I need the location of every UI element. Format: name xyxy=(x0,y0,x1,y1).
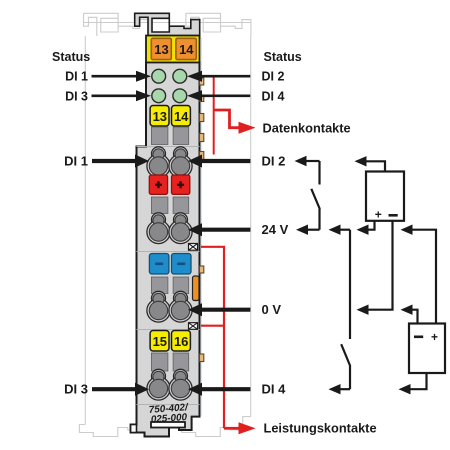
status arrow DI3 xyxy=(92,95,138,98)
LED DI2 xyxy=(173,69,187,83)
orange release lever xyxy=(193,276,200,301)
svg-text:DI 3: DI 3 xyxy=(64,382,88,397)
svg-text:Status: Status xyxy=(264,50,302,64)
arrow from B2 bottom xyxy=(410,373,427,389)
cage clamp 0V-b xyxy=(169,291,192,322)
cage clamp DI2 xyxy=(169,147,192,178)
orange label 14 xyxy=(176,38,196,59)
status arrow DI4 xyxy=(201,95,250,98)
section divider lines xyxy=(137,147,200,405)
DIN rail line xyxy=(84,22,251,24)
bottom release hook xyxy=(131,425,137,433)
wire DI2 right xyxy=(201,159,250,163)
red marker + left xyxy=(149,175,167,194)
blue marker - left xyxy=(149,254,169,275)
wire S2 top lead xyxy=(349,230,351,339)
yellow terminal id block xyxy=(146,36,200,63)
data contact tabs xyxy=(200,78,204,362)
wire DI1 left xyxy=(92,159,136,163)
red data contact line xyxy=(213,76,215,155)
arrow to switch S2 xyxy=(340,229,350,231)
yellow label 14 xyxy=(172,106,191,127)
LED DI1 xyxy=(152,69,166,83)
svg-text:+: + xyxy=(431,330,438,344)
svg-text:14: 14 xyxy=(179,42,194,57)
red Datenkontakte arrow xyxy=(214,110,240,128)
red power jumper line xyxy=(201,247,224,428)
cage clamp 24V-b xyxy=(169,213,192,244)
svg-text:Datenkontakte: Datenkontakte xyxy=(263,121,351,136)
battery B1 top lead xyxy=(362,161,385,171)
yellow label 13 xyxy=(150,106,169,127)
cage clamp 0V-a xyxy=(147,291,170,322)
arrow from S1 xyxy=(308,229,320,231)
svg-text:13: 13 xyxy=(154,42,168,57)
module body xyxy=(131,62,200,437)
part number label xyxy=(148,402,190,426)
LED DI4 xyxy=(173,89,187,103)
orange label 13 xyxy=(151,38,171,59)
status arrow DI2 xyxy=(201,75,250,78)
arrow from B1 plus xyxy=(368,221,375,230)
side shadow line xyxy=(201,38,202,416)
arrow to B2 minus xyxy=(412,310,418,324)
svg-text:24 V: 24 V xyxy=(262,222,289,237)
svg-text:DI 3: DI 3 xyxy=(65,89,88,103)
cage clamp 24V-a xyxy=(147,213,170,244)
ghost neighbour modules xyxy=(79,13,250,436)
cage clamp DI4 xyxy=(169,369,192,400)
arrow from S2 xyxy=(340,388,350,390)
wire S2 bottom lead xyxy=(349,366,351,390)
svg-text:14: 14 xyxy=(174,109,189,124)
svg-text:15: 15 xyxy=(153,334,167,349)
arrow to switch S1 xyxy=(306,160,320,162)
red Leistungskontakte arrow xyxy=(224,427,240,430)
arrow to B2 plus xyxy=(412,230,436,324)
svg-text:DI 2: DI 2 xyxy=(262,154,286,169)
terminal posts row3 xyxy=(151,277,168,294)
wire 0V right xyxy=(201,308,250,312)
power jumper contact 2 xyxy=(189,323,198,330)
switch S2 blade xyxy=(341,344,350,366)
wire S1 bottom lead xyxy=(318,209,320,230)
bottom foot notch xyxy=(151,422,185,428)
terminal posts row4 xyxy=(151,353,168,371)
module top clamp (hat) xyxy=(135,13,200,38)
terminal posts row1 xyxy=(151,127,168,145)
wire DI3 left xyxy=(92,387,136,391)
wire 24V right xyxy=(201,228,250,232)
red marker + right xyxy=(172,175,190,194)
cage clamp DI1 xyxy=(147,147,170,178)
svg-text:Leistungskontakte: Leistungskontakte xyxy=(264,421,377,436)
LED DI3 xyxy=(152,89,166,103)
cage clamp DI3 xyxy=(147,369,170,400)
svg-text:DI 4: DI 4 xyxy=(262,382,287,397)
svg-text:DI 1: DI 1 xyxy=(65,70,88,84)
battery B2 xyxy=(409,324,445,374)
battery B1 xyxy=(366,172,404,221)
power jumper contact 1 xyxy=(189,244,198,251)
wire S1 top lead xyxy=(318,161,320,185)
svg-text:16: 16 xyxy=(174,334,188,349)
wire DI4 right xyxy=(201,387,250,391)
svg-text:DI 4: DI 4 xyxy=(262,89,285,103)
svg-text:0 V: 0 V xyxy=(262,302,282,317)
yellow label 15 xyxy=(150,331,169,352)
status arrow DI1 xyxy=(92,75,138,78)
terminal posts row2 xyxy=(151,197,168,214)
svg-text:Status: Status xyxy=(52,50,90,64)
arrow from B1 minus xyxy=(368,221,393,310)
yellow label 16 xyxy=(172,331,191,352)
svg-text:13: 13 xyxy=(153,109,167,124)
svg-text:DI 1: DI 1 xyxy=(64,154,88,169)
svg-text:DI 2: DI 2 xyxy=(262,70,285,84)
blue marker - right xyxy=(172,254,192,275)
svg-text:+: + xyxy=(375,207,382,221)
switch S1 blade xyxy=(311,189,320,209)
